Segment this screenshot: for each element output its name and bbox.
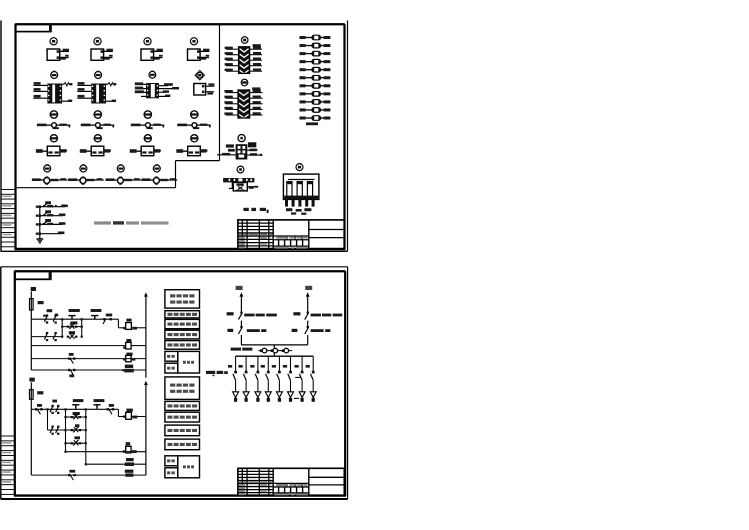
timer contact CCP2 (91, 309, 102, 320)
breaker contact QA (293, 312, 309, 327)
lamp branch 6 (283, 356, 292, 391)
signal lamp HL4 (265, 392, 271, 402)
breaker contact QA (227, 312, 243, 327)
lamp branch 3 (250, 356, 259, 391)
meter symbol row3 col2 (94, 111, 101, 118)
ammeter P2 (94, 38, 101, 45)
fuse link F7 (300, 84, 331, 89)
wire (176, 149, 187, 153)
transducer box U1 (47, 49, 60, 60)
signal lamp HL5 (276, 392, 282, 402)
supply wire 2 (30, 382, 32, 475)
rung 1 wire L2 (31, 409, 146, 416)
label working feeder (236, 286, 243, 290)
label (253, 44, 261, 47)
supply label L2 (29, 378, 34, 382)
relay coil K6 (122, 365, 134, 373)
relay coil K7 (125, 470, 134, 477)
wire (224, 112, 262, 115)
relay box row4 col2 (91, 146, 104, 156)
terminal block X1 (47, 84, 62, 104)
contact KX2 (103, 314, 112, 324)
branch verticals (61, 318, 83, 338)
sheet1 revision strip table (1, 190, 16, 247)
timer symbol row2 col3 (149, 71, 156, 79)
relay coil K2C (125, 458, 134, 466)
bus vertical (39, 206, 41, 239)
fuse link F2 (300, 43, 331, 48)
sheet1 section divider (16, 24, 220, 188)
wire (225, 52, 262, 55)
branch verticals L2 (46, 408, 86, 465)
wire (77, 82, 91, 85)
fuse link F9 (300, 100, 331, 105)
relay coil K5 (123, 339, 131, 349)
terminal block X2 (91, 84, 106, 104)
fuse link F6 (300, 75, 331, 80)
signal wire rung 1 (36, 201, 68, 208)
contact C1a L2 (50, 400, 59, 414)
lamp branch 7 (295, 356, 304, 391)
ground (36, 239, 43, 243)
meter symbol row4 col1 (50, 135, 58, 142)
switch bank S1 (239, 47, 250, 74)
relay coil K4 (123, 353, 135, 362)
wire (200, 55, 210, 60)
wire (59, 55, 68, 60)
function text column lower (165, 377, 200, 478)
current loop row5 col1 (32, 176, 68, 184)
contact SH2 L2 (107, 404, 115, 414)
wire (77, 95, 91, 98)
fuse link F4 (300, 59, 331, 64)
current loop row3 col2 (81, 123, 115, 129)
ammeter P3 (144, 38, 151, 45)
wire (225, 69, 262, 72)
rung 5 wire (31, 369, 146, 371)
label (306, 122, 318, 125)
fuse link F1 (300, 35, 331, 40)
meter symbol row5 col4 (153, 164, 160, 172)
wire (103, 49, 113, 52)
contactor contact 1M (292, 326, 309, 345)
lamp branch 5 (272, 356, 281, 391)
sheet2 revision strip table (1, 436, 15, 494)
signal lamp HL6 (288, 392, 294, 402)
ammeter P1 (50, 38, 57, 45)
fuse RD2 (30, 390, 44, 400)
wire (224, 107, 262, 110)
current loop row5 col2 (68, 176, 104, 184)
wire (60, 149, 68, 152)
contact BK branch L2 (66, 436, 86, 445)
meter symbol row2 col2 (95, 71, 102, 79)
wire (200, 49, 210, 52)
relay coil K3B (123, 409, 137, 420)
feeder wire with arrow (306, 292, 310, 312)
wire (36, 149, 47, 153)
meter symbol row4 col2 (94, 135, 102, 142)
contactor contact 1M (227, 326, 242, 345)
meter symbol row4 col4 (191, 135, 199, 142)
indicator lamp circle (260, 348, 267, 353)
seal contact KM (62, 321, 81, 329)
contact X1b (53, 314, 58, 324)
voltage label UD 48V (231, 348, 253, 351)
wire (229, 186, 258, 189)
current loop row3 col1 (37, 123, 71, 129)
sheet1 outer border (1, 21, 348, 252)
fuse link F3 (300, 51, 331, 56)
dc bus wire (241, 345, 307, 356)
fuse RD1 (30, 299, 44, 310)
meter symbol row2 col4 (195, 70, 205, 80)
terminal block X3 (146, 83, 159, 98)
sheet2 inner frame (14, 271, 346, 496)
current loop row5 col4 (141, 176, 177, 184)
meter symbol AA (241, 37, 248, 44)
rung 3 wire L2 (66, 451, 146, 453)
transducer box U4 (188, 49, 201, 60)
tie wire lamps 6-7 (294, 377, 300, 398)
wire (206, 83, 215, 86)
signal wire rung 3 (36, 219, 66, 226)
meter symbol row5 col3 (117, 164, 124, 172)
sheet1 zone label box (16, 24, 52, 32)
contact BK2 (68, 470, 76, 480)
meter symbol row5 col2 (80, 164, 87, 172)
wire (135, 82, 146, 85)
indicator loop wire (258, 350, 292, 352)
meter symbol AB (241, 79, 248, 86)
wire (130, 149, 141, 153)
timer contact CCP1 (62, 309, 81, 320)
rung 2 wire L2 (48, 424, 86, 435)
wire (159, 87, 179, 89)
breaker rating label 1 (244, 314, 277, 317)
current loop row5 col3 (105, 176, 141, 184)
rung 5 wire L2 (31, 474, 146, 476)
ammeter P4 (190, 38, 197, 45)
sheet1 title block (238, 220, 344, 249)
wire (224, 101, 262, 104)
contactor rating label 2 (311, 329, 331, 332)
feeder wire with arrow (240, 292, 244, 312)
transducer box U2 (91, 49, 104, 60)
wire (59, 49, 69, 52)
wire (159, 83, 173, 86)
wire (200, 149, 208, 152)
wire (103, 55, 113, 60)
wire (80, 149, 91, 153)
lamp branch 2 (239, 356, 248, 391)
meter symbol row3 col3 (144, 111, 151, 118)
label row under meter AD (243, 208, 268, 213)
wire (224, 90, 262, 93)
relay coil K3 (123, 319, 137, 330)
wire (247, 142, 262, 156)
sheet2 title block (238, 468, 344, 495)
wire (225, 47, 262, 50)
supply wire (30, 291, 32, 370)
wire (62, 100, 72, 102)
seal contact KM L2 (66, 412, 86, 419)
current loop row3 col4 (177, 123, 211, 129)
meter symbol AC (238, 135, 245, 142)
meter symbol row5 col1 (44, 164, 51, 172)
label standby feeder (305, 286, 312, 290)
sheet2 zone label box (15, 271, 51, 279)
breaker rating label 2 (311, 314, 343, 317)
fuse link F10 (300, 108, 331, 113)
wire (141, 95, 170, 97)
rung 3 wire (31, 345, 146, 347)
timer contact CCP1 L2 (72, 399, 83, 409)
signal wire rung 2 (36, 210, 66, 217)
current loop row3 col3 (131, 123, 165, 129)
wire (33, 88, 47, 91)
transducer box row2 col4 (194, 84, 206, 96)
wire (225, 58, 262, 61)
contact X1a (43, 309, 52, 323)
label (252, 87, 260, 90)
wire (33, 82, 47, 85)
meter symbol row2 col1 (51, 71, 58, 79)
fuse link F5 (300, 67, 331, 72)
wire (106, 83, 116, 86)
sheet1 inner frame (15, 24, 346, 249)
rung 1 wire (31, 319, 146, 328)
meter symbol AD (237, 166, 244, 173)
indicator lamp circle (282, 348, 289, 353)
fuse link F11 (300, 116, 331, 121)
terminal strip XT (223, 178, 254, 191)
note text (94, 221, 169, 224)
fuse link F8 (300, 92, 331, 97)
wire (153, 55, 163, 60)
lamp bus wire (236, 355, 314, 357)
signal lamp HL2 (243, 392, 249, 402)
signal lamp HL1 (233, 392, 239, 402)
contact B1 (68, 369, 75, 377)
lamp branch 4 (261, 356, 270, 391)
timer contact CCP2 L2 (93, 399, 104, 409)
contact KX branch (67, 331, 78, 339)
motor symbol M (296, 164, 303, 171)
return wire 2 with arrow (144, 381, 148, 475)
function text column upper (165, 290, 200, 373)
supply label L1 (31, 287, 36, 291)
wire (62, 83, 72, 86)
wire (217, 144, 236, 155)
signal lamp HL7 (299, 392, 305, 402)
wire (103, 149, 111, 152)
wire (135, 90, 146, 93)
lamp branch 1 (228, 356, 237, 391)
contact SH1 (35, 404, 43, 414)
rung 4 wire L2 (86, 463, 146, 465)
wire (77, 88, 91, 91)
signal wire rung 4 (36, 232, 65, 236)
relay box row4 col1 (47, 146, 60, 156)
sheet2 outer border (1, 267, 348, 499)
wire (225, 63, 262, 66)
voltage label 380V (206, 371, 228, 376)
wire (106, 100, 116, 102)
return wire with arrow (144, 292, 148, 377)
wire (33, 95, 47, 98)
relay coil K1 (123, 442, 137, 453)
meter symbol row3 col4 (191, 111, 198, 118)
rung 4 wire (31, 358, 146, 360)
lamp branch 8 (306, 356, 315, 391)
contact C1 (68, 353, 75, 364)
relay box row4 col3 (141, 146, 154, 156)
signal lamp HL3 (255, 392, 261, 402)
relay block K0 (236, 144, 248, 159)
wire (153, 49, 163, 52)
relay box row4 col4 (188, 146, 201, 156)
wire (135, 87, 146, 90)
wire (224, 96, 262, 99)
meter symbol row4 col3 (144, 135, 152, 142)
wire (159, 90, 169, 92)
rung 2 wire (31, 332, 62, 341)
wire (206, 92, 214, 95)
brush contacts (285, 199, 315, 214)
transformer T1 (283, 174, 319, 199)
meter symbol row3 col1 (50, 111, 57, 118)
transducer box U3 (141, 49, 154, 60)
signal lamp HL8 (310, 392, 316, 402)
contactor rating label 1 (247, 329, 267, 332)
wire (153, 149, 161, 152)
indicator lamp circle (271, 348, 278, 353)
switch bank S2 (238, 90, 250, 118)
